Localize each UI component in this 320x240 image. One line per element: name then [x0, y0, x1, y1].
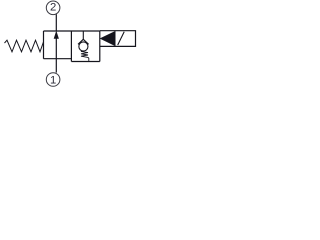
- svg-text:1: 1: [50, 74, 56, 86]
- svg-text:2: 2: [50, 2, 56, 14]
